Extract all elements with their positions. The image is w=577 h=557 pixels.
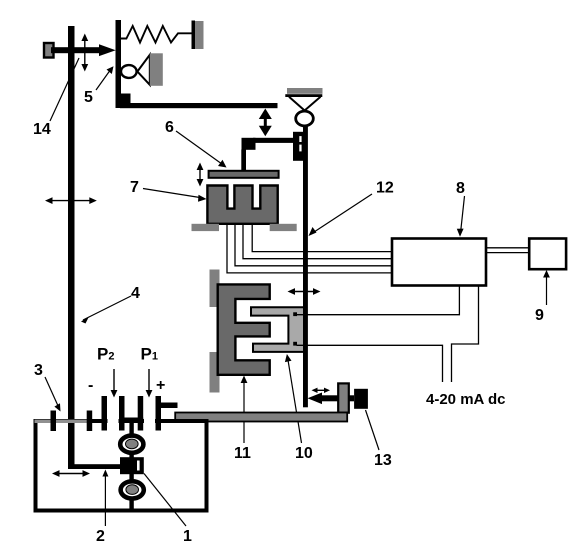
seal flange tick right — [87, 411, 93, 432]
svg-text:2: 2 — [96, 528, 105, 545]
svg-text:-: - — [88, 377, 93, 394]
leader line 2 — [104, 472, 106, 526]
svg-text:11: 11 — [234, 445, 251, 462]
detector wire 2 — [243, 224, 392, 259]
leader line 1 — [144, 474, 186, 527]
upper capsule diaphragm — [120, 436, 143, 453]
nozzle cap (gray) — [287, 88, 323, 94]
leader line 10 — [288, 357, 302, 443]
motor magnet block — [354, 389, 368, 409]
force bar 4 (vertical beam) — [68, 26, 75, 469]
leader line 11 — [243, 378, 245, 443]
svg-text:14: 14 — [33, 121, 51, 138]
leader line 8 — [461, 196, 465, 233]
lever bar A (horizontal to nozzle area) — [120, 103, 278, 108]
svg-text:13: 13 — [374, 452, 392, 469]
detector E-core 7 — [207, 186, 277, 224]
leader line 13 — [366, 410, 380, 450]
port opening P2 (white gap) — [108, 418, 119, 425]
svg-text:10: 10 — [295, 445, 313, 462]
svg-text:9: 9 — [535, 307, 544, 324]
elbow at bottom of bar 5 — [116, 94, 131, 109]
svg-text:1: 1 — [183, 528, 192, 545]
coil wire to output terminal (line 2) — [297, 345, 443, 382]
vertical double arrow near arm — [84, 38, 86, 67]
force coil E-core 11 — [218, 284, 270, 374]
svg-text:6: 6 — [165, 119, 174, 136]
U bottom between stubs 2-3 — [119, 418, 143, 424]
svg-text:5: 5 — [84, 89, 93, 106]
coil wire to amplifier (line 1) — [297, 286, 460, 315]
svg-text:4-20 mA dc: 4-20 mA dc — [426, 391, 505, 408]
seal flange tick left — [51, 411, 57, 432]
seal line 3 (gray) — [35, 420, 92, 423]
gray link bar (feedback lever) — [175, 413, 347, 422]
fulcrum backing block — [150, 53, 163, 86]
svg-text:P2: P2 — [97, 345, 114, 364]
range bar 5 (vertical) — [116, 20, 122, 108]
feedback motor arm 13 with arrowhead — [318, 395, 354, 401]
leader line 12 — [311, 194, 372, 234]
pivot ball — [296, 111, 314, 126]
flapper elbow block — [242, 138, 256, 150]
leader line 4 — [83, 296, 131, 320]
leader line 9 — [546, 273, 548, 305]
gray wall marks behind core 11 — [210, 270, 220, 308]
coil terminal upper — [293, 312, 297, 316]
armature C-piece 10 — [251, 307, 304, 352]
horizontal double arrow on force bar — [49, 200, 93, 202]
amplifier box 8 — [392, 239, 486, 286]
amplifier output wire (line 3) — [452, 286, 479, 382]
svg-text:7: 7 — [130, 179, 139, 196]
fulcrum wedge — [137, 55, 149, 85]
main beam 12 (vertical) — [303, 125, 308, 408]
stub 4 foot — [156, 403, 178, 409]
nozzle base line — [285, 94, 322, 97]
svg-text:4: 4 — [131, 285, 140, 302]
detector wire 4 — [227, 224, 392, 273]
mounting pad left — [192, 224, 220, 231]
armature 6 (flapper plate) — [209, 171, 279, 178]
lower capsule diaphragm — [121, 481, 144, 498]
horizontal double arrow at beam (upper) — [291, 291, 317, 293]
svg-text:8: 8 — [456, 180, 465, 197]
svg-text:3: 3 — [34, 362, 43, 379]
motor pole piece (gray bar) — [338, 383, 349, 412]
spring anchor wall — [192, 21, 196, 50]
svg-text:+: + — [156, 377, 165, 394]
flexure bracket at left end of arm 14 — [44, 43, 54, 58]
double arrow in tank — [56, 473, 87, 475]
leader line 14 — [50, 58, 79, 121]
nozzle V — [289, 97, 305, 111]
leader line 3 — [45, 377, 59, 408]
center pipe — [129, 421, 133, 511]
svg-text:P1: P1 — [141, 345, 158, 364]
small double arrow above arm — [315, 389, 328, 391]
coil terminal lower — [293, 342, 297, 346]
port stub 2 — [119, 396, 125, 431]
thick double arrow under lever end — [264, 114, 267, 131]
port stub 4 — [156, 396, 162, 431]
meter box 9 — [529, 239, 566, 270]
tank body — [36, 421, 207, 511]
force bar bottom link — [68, 464, 121, 469]
P1 arrow — [148, 369, 150, 393]
vertical double arrow left of armature — [199, 167, 201, 182]
flapper stem — [241, 150, 246, 172]
bar B (flapper drive bar) — [253, 138, 293, 143]
fulcrum pivot 5 — [121, 65, 137, 78]
detector wire 3 — [235, 224, 392, 266]
zero spring — [121, 26, 192, 43]
detector wire 1 — [252, 224, 392, 252]
P2 arrow — [113, 369, 115, 393]
svg-text:12: 12 — [376, 180, 394, 197]
connector lines 8-9 — [486, 247, 529, 249]
junction block with flexures — [293, 132, 304, 161]
port stub 3 — [138, 396, 144, 431]
leader line 7 — [143, 189, 203, 199]
port stub 1 — [102, 396, 108, 431]
pilot valve block 1 — [120, 457, 144, 474]
leader line 5 — [96, 69, 111, 90]
arm with arrow (zero adjust link) — [51, 47, 99, 53]
port opening P1 (white gap) — [144, 418, 155, 425]
leader line 6 — [176, 131, 224, 166]
mounting pad right — [270, 224, 297, 231]
